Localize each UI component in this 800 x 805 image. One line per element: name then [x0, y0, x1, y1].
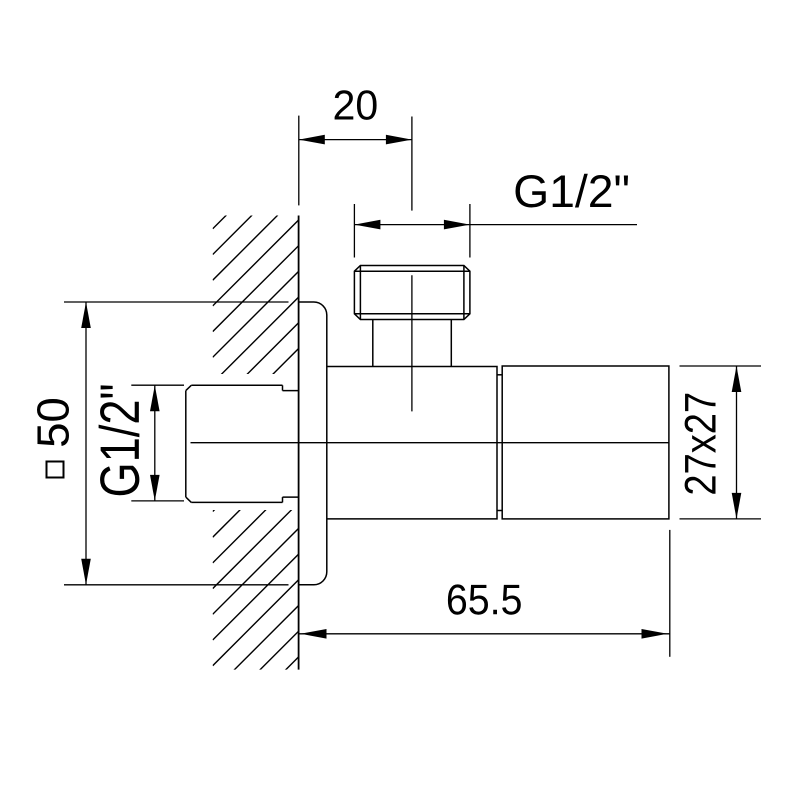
dimension 27x27 line	[736, 366, 738, 519]
dimension G1/2 left text	[99, 385, 140, 495]
dimension 27x27 arrow down	[732, 493, 742, 519]
dimension 50 arrow down	[81, 559, 91, 585]
dimension 50 arrow up	[81, 302, 91, 328]
dimension 20 arrow left	[299, 135, 325, 145]
dimension G1/2 left arrow down	[150, 475, 160, 501]
dimension G1/2 left extension lines	[131, 384, 184, 386]
valve head (27x27 square section)	[502, 366, 669, 519]
dimension 20 extension line (wall)	[298, 116, 300, 206]
dimension G1/2 top line with leader	[354, 224, 637, 226]
dimension 65.5 arrow right	[642, 629, 668, 639]
dimension G1/2 top text	[516, 174, 629, 208]
dimension 65.5 text	[448, 584, 521, 614]
groove between body and head	[497, 375, 502, 511]
wall surface line	[298, 216, 300, 670]
dimension 65.5 arrow left	[301, 629, 327, 639]
dimension 50 square symbol	[47, 462, 64, 478]
vertical centerline (through cap)	[411, 275, 413, 411]
outlet cap G1/2 male thread	[354, 266, 470, 320]
dimension 65.5 line	[300, 633, 670, 635]
dimension 20 line	[299, 139, 412, 141]
dimension 20 arrow right	[386, 135, 412, 145]
wall flange / escutcheon	[299, 302, 327, 585]
dimension G1/2 top arrow left	[354, 220, 380, 230]
inlet connector G1/2 male thread (in wall)	[186, 385, 299, 502]
dimension G1/2 left line	[154, 385, 156, 501]
dimension 50 line	[85, 302, 87, 585]
dimension 50 text	[37, 399, 69, 446]
dimension G1/2 top arrow right	[444, 220, 470, 230]
outlet neck	[373, 320, 452, 367]
dimension 27x27 arrow up	[732, 366, 742, 392]
vertical centerline (upper segment / dim-20 right extension)	[411, 117, 413, 211]
dimension 27x27 text	[685, 394, 716, 494]
valve body (square section)	[299, 367, 497, 519]
dimension G1/2 left arrow up	[150, 385, 160, 411]
dimension 20 text	[335, 90, 377, 120]
dimension G1/2 top extension lines	[353, 204, 355, 258]
dimension 27x27 extension lines	[680, 365, 762, 367]
wall hatching	[213, 143, 299, 743]
dimension 65.5 extension line right	[669, 530, 671, 657]
dimension 50 extension lines	[64, 301, 289, 303]
horizontal centerline	[191, 442, 669, 444]
